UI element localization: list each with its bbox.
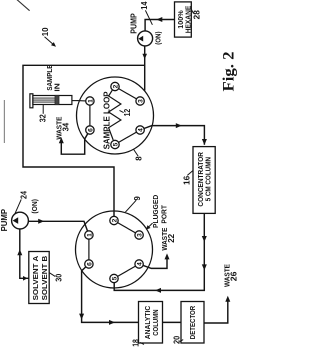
arrow waste 26 <box>225 296 230 302</box>
valve 9 port 5 <box>110 274 119 282</box>
valve 9 port 2 <box>110 216 119 224</box>
svg-text:2: 2 <box>111 218 118 222</box>
valve 9 body circle <box>76 211 153 288</box>
leader for label 12 <box>120 110 124 112</box>
svg-text:(ON): (ON) <box>30 199 39 214</box>
analytic column box 18 <box>139 302 163 344</box>
pump 14 rotor triangle <box>138 36 143 42</box>
svg-text:SOLVENT A: SOLVENT A <box>31 255 40 300</box>
valve 9 port 3 <box>135 231 144 239</box>
svg-text:100%: 100% <box>178 10 185 29</box>
svg-text:5: 5 <box>111 276 118 280</box>
pump 24 rotor triangle <box>13 217 19 224</box>
valve 8 link port2-port3 <box>119 89 137 99</box>
leader for label 16 <box>187 171 192 176</box>
arrow on concentrator return wire (second) <box>202 264 207 270</box>
arrow waste 34 <box>59 137 64 143</box>
svg-text:PORT: PORT <box>159 205 168 224</box>
svg-text:SOLVENT B: SOLVENT B <box>40 255 49 300</box>
arrow on hexane wire <box>156 17 162 22</box>
svg-text:34: 34 <box>61 123 71 132</box>
pump 24 circle <box>12 212 29 229</box>
wire valve 9 port 4 to waste 22 <box>143 256 167 269</box>
arrow on pump 24 output wire <box>38 219 44 224</box>
svg-text:1: 1 <box>87 99 94 103</box>
arrow on analytic wire (horizontal run) <box>79 314 84 320</box>
leader for label 30 <box>50 273 56 277</box>
svg-text:24: 24 <box>18 191 28 199</box>
svg-text:(ON): (ON) <box>153 31 162 45</box>
svg-text:5 CM COLUMN: 5 CM COLUMN <box>204 157 213 201</box>
svg-text:9: 9 <box>132 196 142 201</box>
svg-text:2: 2 <box>112 84 119 88</box>
svg-text:20: 20 <box>171 336 181 344</box>
leader arrow for label 10 <box>45 37 54 45</box>
svg-text:3: 3 <box>138 99 145 103</box>
leader for label 18 <box>140 342 144 344</box>
svg-text:16: 16 <box>181 176 191 185</box>
svg-text:4: 4 <box>137 262 144 266</box>
valve 8 link port4-port5 <box>119 132 137 142</box>
leader arrow for plugged port (points at port 3) <box>147 223 152 228</box>
valve 8 port 5 <box>111 140 120 148</box>
valve 8 port 1 <box>86 97 95 105</box>
pump 14 circle <box>138 31 153 46</box>
wire valve 8 port 4 to concentrator column <box>144 126 204 145</box>
svg-text:PUMP: PUMP <box>0 209 9 231</box>
page edge artifact line <box>3 100 5 143</box>
svg-text:14: 14 <box>139 1 149 9</box>
svg-text:22: 22 <box>166 234 176 243</box>
svg-text:DETECTOR: DETECTOR <box>188 305 197 339</box>
detector box 20 <box>181 302 204 344</box>
valve 8 port 3 <box>136 97 145 105</box>
valve 9 link port4-port5 <box>118 266 136 276</box>
wire detector to waste 26 <box>204 298 228 323</box>
arrow on pump 14 output wire <box>142 54 147 59</box>
stray mark (page artifact, top-right corner of landscape) <box>17 0 30 11</box>
svg-text:COLUMN: COLUMN <box>151 309 160 335</box>
hexane reservoir box 28 <box>175 2 192 37</box>
wire valve 8 rim to pump 14 <box>144 46 146 91</box>
valve 9 port 4 <box>135 260 144 268</box>
valve 8 port 2 <box>111 82 120 90</box>
wire pump 14 tee to valve 9 port 2 (long branch) <box>23 65 145 216</box>
solvent reservoir box 30 <box>29 252 49 304</box>
svg-text:32: 32 <box>38 114 48 122</box>
syringe 32 barrel <box>33 96 72 105</box>
arrow on concentrator return wire (upward run) <box>155 288 161 293</box>
svg-text:6: 6 <box>86 262 93 266</box>
leader for label 20 <box>180 340 183 342</box>
svg-text:Fig. 2: Fig. 2 <box>220 51 237 91</box>
sample loop 12 (zigzag coil between ports 2 and 5) <box>109 90 121 140</box>
wire hexane box to pump 14 <box>145 20 174 31</box>
svg-text:26: 26 <box>230 271 239 281</box>
svg-text:18: 18 <box>131 339 141 347</box>
svg-text:6: 6 <box>87 128 94 132</box>
wire analytic column to detector <box>163 321 182 323</box>
concentrator column box 16 <box>193 147 215 214</box>
svg-text:8: 8 <box>133 156 143 161</box>
svg-text:1: 1 <box>86 233 93 237</box>
wire valve 9 port 6 to analytic column <box>82 267 139 323</box>
valve 8 body circle <box>77 77 154 154</box>
valve 8 link port1-port6 <box>89 105 91 126</box>
syringe 32 plunger T-handle <box>30 94 33 108</box>
svg-text:PUMP: PUMP <box>130 13 139 33</box>
arrow into concentrator box <box>202 139 207 145</box>
leader for label 8 <box>134 149 139 156</box>
leader for label 9 <box>125 200 136 212</box>
wire concentrator to valve 9 port 5 <box>114 214 204 291</box>
svg-text:5: 5 <box>112 142 119 146</box>
syringe 32 plunger seal <box>55 96 59 105</box>
svg-text:4: 4 <box>138 128 145 132</box>
svg-text:10: 10 <box>40 27 50 36</box>
arrow waste 22 <box>165 253 170 259</box>
arrow on solvent wire toward pump <box>17 249 22 255</box>
wire valve 8 port 6 to waste 34 <box>61 134 88 155</box>
leader for label 14 <box>145 10 152 24</box>
valve 9 link port1-port6 <box>88 239 90 260</box>
valve 9 port 1 <box>85 231 94 239</box>
svg-text:SAMPLE LOOP: SAMPLE LOOP <box>102 91 111 150</box>
arrow on solvent wire toward box <box>23 276 28 281</box>
leader for label 24 <box>15 199 22 214</box>
wire solvent box to pump 24 <box>20 229 29 278</box>
syringe 32 plunger rod lines <box>33 101 55 103</box>
leader for label 32 <box>42 105 44 114</box>
wire syringe needle to valve 8 port 1 <box>77 100 86 102</box>
leader for label 28 <box>191 9 194 14</box>
arrow on concentrator return wire (first) <box>202 236 207 242</box>
arrow toward concentrator (vertical run) <box>176 123 182 128</box>
valve 8 port 6 <box>86 126 95 134</box>
valve 9 port 6 <box>85 260 94 268</box>
svg-text:30: 30 <box>54 274 64 282</box>
syringe 32 needle <box>72 100 77 102</box>
svg-text:3: 3 <box>137 233 144 237</box>
valve 9 link port2-port3 <box>118 223 136 233</box>
wire pump 24 to valve 9 port 1 <box>29 221 88 231</box>
arrow on analytic wire (vertical run) <box>109 320 115 325</box>
valve 8 port 4 <box>136 126 145 134</box>
svg-text:IN: IN <box>53 83 62 91</box>
